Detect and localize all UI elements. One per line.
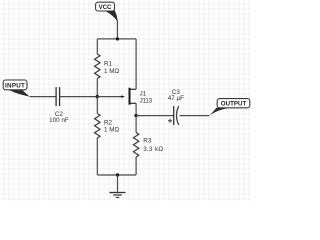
junction VCC-rail xyxy=(116,37,119,40)
junction ground node xyxy=(116,173,119,176)
svg-text:1 MΩ: 1 MΩ xyxy=(104,126,119,133)
svg-text:OUTPUT: OUTPUT xyxy=(221,101,247,108)
wire R3 top lead xyxy=(135,116,137,133)
wire drain up to rail xyxy=(135,39,137,89)
svg-text:R3: R3 xyxy=(143,137,152,144)
wire C3 to output flag xyxy=(180,115,210,117)
wire source down to output node xyxy=(135,103,137,115)
net flag OUTPUT xyxy=(209,99,249,116)
wire R3 bottom lead xyxy=(135,157,137,175)
svg-text:3.3 kΩ: 3.3 kΩ xyxy=(143,146,163,153)
resistor R3 xyxy=(133,133,163,158)
wire C2 to gate node xyxy=(60,96,98,98)
junction gate node xyxy=(96,95,99,98)
svg-text:J113: J113 xyxy=(140,97,153,104)
wire top rail from R1 top to drain branch xyxy=(97,38,136,40)
wire R2 bottom lead xyxy=(96,138,98,175)
net flag VCC xyxy=(96,2,118,21)
wire R1 top lead xyxy=(96,39,98,54)
svg-text:R1: R1 xyxy=(104,61,113,68)
wire R2 top lead xyxy=(96,97,98,114)
resistor R1 xyxy=(95,54,120,79)
wire bottom rail xyxy=(97,174,136,176)
wire R1 bottom lead xyxy=(96,79,98,97)
net flag INPUT xyxy=(3,80,30,97)
wire gate lead xyxy=(97,96,122,98)
svg-text:VCC: VCC xyxy=(98,4,112,11)
wire input to C2 xyxy=(30,96,56,98)
wire ground stub xyxy=(117,175,119,192)
capacitor C3 (polarized) xyxy=(168,89,184,125)
svg-text:100 nF: 100 nF xyxy=(49,117,69,124)
resistor R2 xyxy=(95,114,120,139)
junction output node xyxy=(134,114,137,117)
wire output node to C3 xyxy=(136,115,174,117)
ground xyxy=(110,193,126,198)
svg-text:1 MΩ: 1 MΩ xyxy=(104,68,119,75)
svg-text:47 µF: 47 µF xyxy=(168,95,184,102)
transistor Q J1 (N-JFET) xyxy=(121,88,152,105)
svg-text:INPUT: INPUT xyxy=(5,83,25,90)
capacitor C2 xyxy=(49,87,69,124)
wire VCC drop xyxy=(116,21,118,39)
